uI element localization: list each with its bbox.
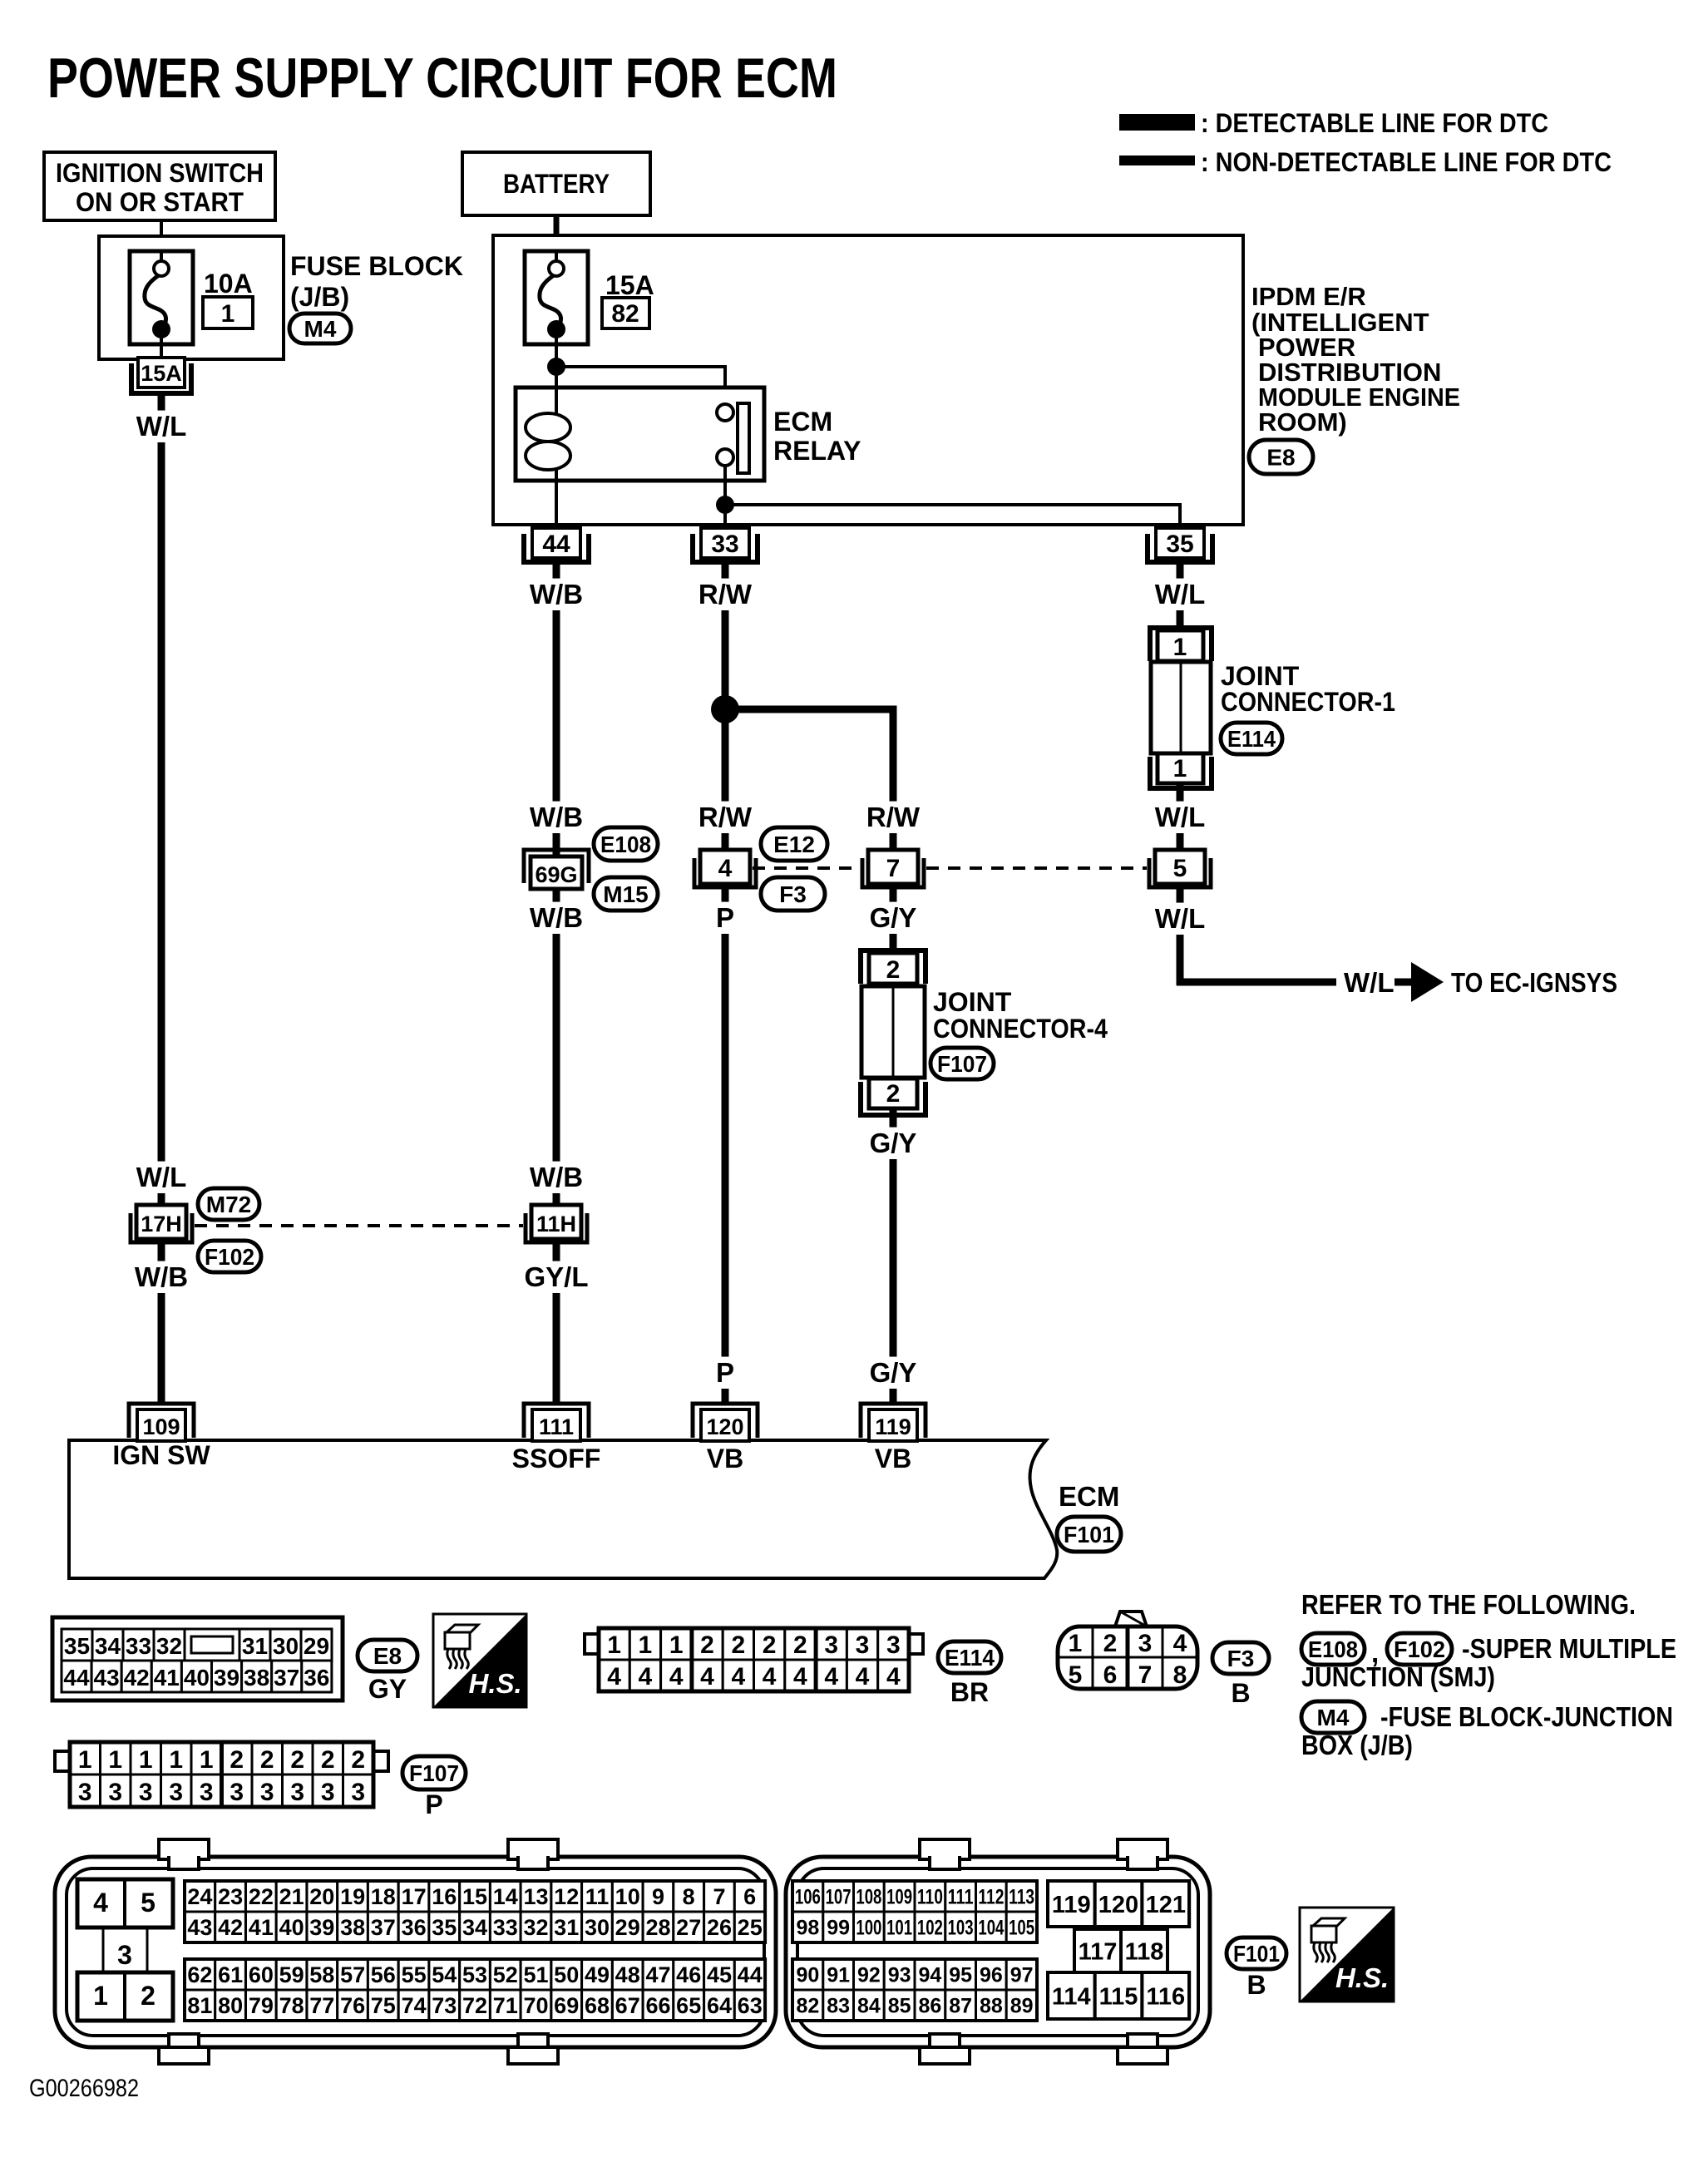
svg-text:2: 2 xyxy=(321,1746,335,1774)
svg-text:G/Y: G/Y xyxy=(870,1357,917,1388)
svg-text:13: 13 xyxy=(523,1884,548,1909)
svg-text:3: 3 xyxy=(200,1779,214,1806)
svg-text:81: 81 xyxy=(187,1993,212,2018)
svg-text:E108: E108 xyxy=(1308,1636,1358,1662)
connector oval F107 (view) xyxy=(402,1756,466,1789)
IPDM pin 33 xyxy=(693,534,758,562)
ECM relay box xyxy=(516,387,764,481)
label W/L above 17H xyxy=(131,1162,191,1193)
svg-text:-SUPER MULTIPLE: -SUPER MULTIPLE xyxy=(1462,1633,1676,1664)
svg-text:108: 108 xyxy=(856,1886,881,1909)
svg-text:9: 9 xyxy=(652,1884,664,1909)
svg-text:2: 2 xyxy=(700,1631,714,1659)
svg-text:POWER SUPPLY CIRCUIT FOR ECM: POWER SUPPLY CIRCUIT FOR ECM xyxy=(47,47,837,110)
svg-text:117: 117 xyxy=(1079,1938,1118,1965)
svg-text:ECM: ECM xyxy=(773,407,832,437)
svg-text:95: 95 xyxy=(949,1964,972,1987)
H.S. logo 2 xyxy=(1300,1908,1394,2002)
label G/Y xyxy=(862,902,923,934)
svg-text:F101: F101 xyxy=(1233,1941,1280,1967)
svg-text:E12: E12 xyxy=(773,832,815,857)
svg-text:30: 30 xyxy=(585,1915,610,1940)
ECM view cells 119-121 xyxy=(1048,1881,1095,1927)
svg-text:W/L: W/L xyxy=(1155,903,1205,934)
svg-text:8: 8 xyxy=(683,1884,695,1909)
svg-text:1: 1 xyxy=(139,1746,153,1774)
wire W/L to EC-IGNSYS xyxy=(1177,979,1336,986)
svg-text:71: 71 xyxy=(493,1993,518,2018)
svg-text:E8: E8 xyxy=(1266,445,1295,471)
svg-text:69G: 69G xyxy=(535,862,577,887)
svg-text:W/L: W/L xyxy=(136,1162,186,1192)
svg-text:96: 96 xyxy=(980,1964,1003,1987)
ECM view grid rows 24-6 / 43-25 xyxy=(185,1881,215,1912)
svg-text:6: 6 xyxy=(1103,1661,1118,1689)
connector oval E12 xyxy=(761,827,827,861)
svg-text:3: 3 xyxy=(117,1940,132,1970)
svg-text:52: 52 xyxy=(493,1962,518,1987)
arrow to EC-IGNSYS xyxy=(1395,979,1414,986)
svg-text:102: 102 xyxy=(917,1917,943,1940)
connector oval E8 (view) xyxy=(358,1640,417,1671)
svg-text:GY: GY xyxy=(368,1674,407,1704)
svg-text:ECM: ECM xyxy=(1059,1481,1119,1512)
svg-text:107: 107 xyxy=(826,1886,852,1909)
ECM box xyxy=(69,1440,1057,1578)
svg-text:IGN SW: IGN SW xyxy=(112,1440,210,1470)
svg-text:35: 35 xyxy=(432,1915,457,1940)
svg-text:1: 1 xyxy=(221,300,235,328)
wire relay contact to pin 33 and junction xyxy=(723,466,727,528)
connector oval E114 xyxy=(1221,723,1282,754)
svg-text:99: 99 xyxy=(827,1917,850,1940)
svg-text:3: 3 xyxy=(169,1779,183,1806)
connector oval E8 xyxy=(1249,440,1313,474)
ECM connector view right shell xyxy=(786,1857,1210,2047)
svg-text:85: 85 xyxy=(888,1995,911,2018)
svg-text:86: 86 xyxy=(918,1995,941,2018)
svg-text:92: 92 xyxy=(857,1964,881,1987)
svg-text:VB: VB xyxy=(875,1444,911,1473)
svg-text:49: 49 xyxy=(585,1962,610,1987)
connector view E8 (IPDM) xyxy=(52,1617,343,1700)
svg-text:JUNCTION (SMJ): JUNCTION (SMJ) xyxy=(1301,1661,1495,1692)
IPDM pin 35 xyxy=(1148,534,1212,562)
svg-text:76: 76 xyxy=(340,1993,365,2018)
svg-text:70: 70 xyxy=(523,1993,548,2018)
svg-text:5: 5 xyxy=(1069,1661,1083,1689)
svg-text:77: 77 xyxy=(309,1993,334,2018)
svg-text:27: 27 xyxy=(676,1915,701,1940)
svg-text:SSOFF: SSOFF xyxy=(512,1444,601,1473)
svg-text:68: 68 xyxy=(585,1993,610,2018)
svg-text:41: 41 xyxy=(249,1915,274,1940)
svg-text:10A: 10A xyxy=(204,269,253,299)
svg-text:M4: M4 xyxy=(1317,1705,1350,1730)
svg-text:3: 3 xyxy=(108,1779,122,1806)
svg-text:7: 7 xyxy=(886,855,901,882)
connector oval E114 (view) xyxy=(938,1641,1001,1673)
svg-text:1: 1 xyxy=(1173,755,1187,782)
svg-text:4: 4 xyxy=(763,1663,777,1691)
ECM view cells 117-118 xyxy=(1074,1929,1121,1972)
svg-text:1: 1 xyxy=(108,1746,122,1774)
SMJ oval F102 (note) xyxy=(1387,1633,1452,1665)
ECM view grid rows 90-97 / 82-89 xyxy=(792,1959,823,1990)
svg-text:118: 118 xyxy=(1125,1938,1164,1965)
svg-text:: DETECTABLE LINE FOR DTC: : DETECTABLE LINE FOR DTC xyxy=(1201,108,1548,138)
svg-text:65: 65 xyxy=(676,1993,701,2018)
svg-text:25: 25 xyxy=(738,1915,763,1940)
svg-text:29: 29 xyxy=(304,1633,329,1659)
svg-text:F3: F3 xyxy=(1227,1646,1255,1671)
svg-text:35: 35 xyxy=(64,1633,90,1659)
svg-text:E114: E114 xyxy=(1227,726,1276,752)
svg-text:JOINT: JOINT xyxy=(933,987,1012,1017)
svg-text:101: 101 xyxy=(886,1917,912,1940)
svg-text:3: 3 xyxy=(230,1779,244,1806)
ECM pin 119 xyxy=(861,1404,926,1438)
svg-text:120: 120 xyxy=(706,1414,743,1439)
svg-text:4: 4 xyxy=(793,1663,807,1691)
svg-text:30: 30 xyxy=(273,1633,299,1659)
dashed link 7 to 5 xyxy=(926,866,1147,870)
label W/B below 17H xyxy=(131,1261,191,1293)
svg-text:R/W: R/W xyxy=(699,802,753,832)
svg-text:55: 55 xyxy=(402,1962,427,1987)
wire fuse 82 to junction xyxy=(555,344,558,387)
svg-text:15A: 15A xyxy=(605,270,654,300)
svg-text:1: 1 xyxy=(1069,1630,1083,1657)
svg-text:2: 2 xyxy=(351,1746,365,1774)
svg-text:4: 4 xyxy=(607,1663,621,1691)
svg-text:80: 80 xyxy=(218,1993,243,2018)
svg-text:GY/L: GY/L xyxy=(524,1261,588,1292)
svg-text:G/Y: G/Y xyxy=(870,902,917,933)
svg-text:W/L: W/L xyxy=(1155,579,1205,610)
svg-text:26: 26 xyxy=(707,1915,732,1940)
joint connector-4 (F107) xyxy=(861,950,926,984)
battery box xyxy=(462,152,650,215)
fuse 10A #1 xyxy=(130,251,193,344)
svg-text:1: 1 xyxy=(200,1746,214,1774)
svg-text:73: 73 xyxy=(432,1993,457,2018)
connector oval M4 xyxy=(289,313,351,343)
SMJ oval F102 xyxy=(198,1241,261,1272)
label W/L xyxy=(1149,802,1210,833)
relay coil xyxy=(555,387,558,413)
svg-text:94: 94 xyxy=(918,1964,941,1987)
svg-text:39: 39 xyxy=(309,1915,334,1940)
connector 5 xyxy=(1149,858,1211,887)
svg-text:IPDM E/R: IPDM E/R xyxy=(1251,282,1366,311)
svg-text:B: B xyxy=(1246,1970,1266,2000)
connector view E114 xyxy=(585,1634,599,1654)
svg-text:83: 83 xyxy=(827,1995,850,2018)
svg-text:F102: F102 xyxy=(205,1244,254,1270)
junction node on R/W wire xyxy=(711,695,739,723)
svg-text:3: 3 xyxy=(139,1779,153,1806)
svg-text:113: 113 xyxy=(1009,1886,1034,1909)
svg-text:114: 114 xyxy=(1052,1983,1091,2010)
ECM pin 109 xyxy=(129,1404,194,1438)
svg-text:56: 56 xyxy=(371,1962,396,1987)
svg-text:37: 37 xyxy=(274,1665,299,1691)
svg-text:W/B: W/B xyxy=(530,902,583,933)
svg-text:79: 79 xyxy=(249,1993,274,2018)
svg-text:M15: M15 xyxy=(603,881,648,907)
label GY/L below 11H xyxy=(517,1261,595,1293)
svg-text:3: 3 xyxy=(78,1779,92,1806)
svg-text:H.S.: H.S. xyxy=(469,1668,522,1699)
connector 11H xyxy=(526,1213,587,1242)
svg-text:7: 7 xyxy=(1138,1661,1153,1689)
svg-text:51: 51 xyxy=(523,1962,548,1987)
svg-text:BATTERY: BATTERY xyxy=(503,169,610,199)
svg-text:91: 91 xyxy=(827,1964,850,1987)
svg-text:28: 28 xyxy=(645,1915,670,1940)
svg-text:P: P xyxy=(716,1357,734,1388)
svg-text:1: 1 xyxy=(169,1746,183,1774)
label P xyxy=(712,902,738,934)
svg-text:74: 74 xyxy=(402,1993,427,2018)
legend: detectable line sample xyxy=(1119,114,1195,131)
svg-text:W/B: W/B xyxy=(530,802,583,832)
label G/Y below JC4 xyxy=(862,1128,923,1159)
svg-text:3: 3 xyxy=(321,1779,335,1806)
svg-text:97: 97 xyxy=(1010,1964,1034,1987)
svg-text:31: 31 xyxy=(242,1633,268,1659)
svg-text:100: 100 xyxy=(856,1917,881,1940)
svg-text:1: 1 xyxy=(639,1631,653,1659)
svg-text:78: 78 xyxy=(279,1993,304,2018)
svg-text:3: 3 xyxy=(351,1779,365,1806)
connector oval F107 xyxy=(931,1048,994,1079)
IPDM pin 44 xyxy=(524,534,589,562)
svg-text:54: 54 xyxy=(432,1962,457,1987)
svg-text:46: 46 xyxy=(676,1962,701,1987)
svg-text:4: 4 xyxy=(639,1663,653,1691)
label R/W xyxy=(694,802,755,833)
svg-text:REFER TO THE FOLLOWING.: REFER TO THE FOLLOWING. xyxy=(1301,1589,1636,1620)
svg-text:98: 98 xyxy=(796,1917,819,1940)
connector 4 xyxy=(694,858,756,887)
svg-text:53: 53 xyxy=(462,1962,487,1987)
svg-text:F107: F107 xyxy=(409,1760,459,1786)
svg-text:32: 32 xyxy=(156,1633,182,1659)
svg-text:4: 4 xyxy=(824,1663,838,1691)
svg-text:2: 2 xyxy=(230,1746,244,1774)
label R/W xyxy=(694,579,755,610)
wire relay coil to pin 44 xyxy=(555,481,558,528)
svg-text:H.S.: H.S. xyxy=(1335,1962,1389,1993)
svg-text:BOX (J/B): BOX (J/B) xyxy=(1301,1730,1413,1760)
svg-text:2: 2 xyxy=(886,956,901,984)
svg-text:W/L: W/L xyxy=(1155,802,1205,832)
ECM view cells 4/5 xyxy=(77,1879,173,1927)
svg-text:119: 119 xyxy=(1052,1892,1091,1918)
IPDM E/R box xyxy=(493,235,1243,525)
ignition switch source box xyxy=(44,152,275,220)
svg-text:F107: F107 xyxy=(937,1051,987,1077)
svg-text:93: 93 xyxy=(888,1964,911,1987)
svg-text:84: 84 xyxy=(857,1995,881,2018)
ECM view grid rows 106-113 / 98-105 xyxy=(792,1881,823,1912)
svg-text:112: 112 xyxy=(978,1886,1004,1909)
svg-text:FUSE BLOCK: FUSE BLOCK xyxy=(290,251,463,281)
svg-text:P: P xyxy=(425,1789,442,1819)
svg-text:E8: E8 xyxy=(373,1643,402,1669)
junction node below fuse 82 xyxy=(547,358,565,376)
svg-text:116: 116 xyxy=(1146,1983,1185,2010)
svg-text:32: 32 xyxy=(523,1915,548,1940)
svg-text:17: 17 xyxy=(402,1884,427,1909)
svg-text:38: 38 xyxy=(340,1915,365,1940)
SMJ oval M15 xyxy=(594,877,658,911)
svg-text:103: 103 xyxy=(948,1917,974,1940)
svg-text:15A: 15A xyxy=(141,361,182,386)
svg-text:E114: E114 xyxy=(945,1645,995,1671)
svg-text:36: 36 xyxy=(304,1665,329,1691)
svg-text:BR: BR xyxy=(950,1677,989,1707)
svg-text:F3: F3 xyxy=(779,881,807,907)
svg-text:11H: 11H xyxy=(536,1212,576,1236)
svg-text:62: 62 xyxy=(187,1962,212,1987)
svg-text:3: 3 xyxy=(290,1779,304,1806)
fuse 15A #82 xyxy=(525,251,588,344)
svg-text:106: 106 xyxy=(795,1886,821,1909)
label W/L below fuse block xyxy=(131,411,191,442)
svg-text:69: 69 xyxy=(554,1993,579,2018)
label W/B xyxy=(526,579,586,610)
svg-text:42: 42 xyxy=(218,1915,243,1940)
svg-text:75: 75 xyxy=(371,1993,396,2018)
svg-text:40: 40 xyxy=(279,1915,304,1940)
svg-text:29: 29 xyxy=(615,1915,640,1940)
svg-text:4: 4 xyxy=(731,1663,745,1691)
svg-text:42: 42 xyxy=(124,1665,150,1691)
legend: non-detectable line sample xyxy=(1119,155,1195,165)
wire W/L ignition branch (left column) xyxy=(158,393,165,1405)
svg-text:1: 1 xyxy=(607,1631,621,1659)
svg-text:2: 2 xyxy=(763,1631,777,1659)
joint connector-1 (E114) xyxy=(1150,628,1212,661)
svg-text:2: 2 xyxy=(290,1746,304,1774)
svg-text:G/Y: G/Y xyxy=(870,1128,917,1158)
svg-text:W/L: W/L xyxy=(136,411,186,442)
svg-text:6: 6 xyxy=(743,1884,756,1909)
svg-text:W/L: W/L xyxy=(1344,967,1394,998)
svg-text:CONNECTOR-4: CONNECTOR-4 xyxy=(933,1014,1108,1044)
connector 7 xyxy=(862,858,924,887)
svg-text:4: 4 xyxy=(856,1663,870,1691)
svg-text:43: 43 xyxy=(187,1915,212,1940)
svg-text:33: 33 xyxy=(493,1915,518,1940)
svg-text:17H: 17H xyxy=(141,1212,182,1236)
ECM view cells 1/2 xyxy=(77,1972,173,2021)
svg-text:11: 11 xyxy=(585,1884,610,1909)
svg-text:43: 43 xyxy=(94,1665,120,1691)
svg-text:40: 40 xyxy=(184,1665,210,1691)
svg-text:3: 3 xyxy=(886,1631,901,1659)
svg-text:119: 119 xyxy=(875,1414,911,1439)
svg-text:ROOM): ROOM) xyxy=(1258,407,1347,437)
svg-text:4: 4 xyxy=(1173,1630,1187,1657)
svg-text:44: 44 xyxy=(738,1962,763,1987)
relay contact xyxy=(717,404,733,421)
svg-text:47: 47 xyxy=(645,1962,670,1987)
svg-text:14: 14 xyxy=(493,1884,518,1909)
svg-text:4: 4 xyxy=(700,1663,714,1691)
svg-text:W/B: W/B xyxy=(135,1261,188,1292)
svg-text:90: 90 xyxy=(796,1964,819,1987)
svg-text:1: 1 xyxy=(669,1631,684,1659)
svg-text:67: 67 xyxy=(615,1993,640,2018)
svg-text:44: 44 xyxy=(542,531,570,558)
svg-text:41: 41 xyxy=(154,1665,180,1691)
ECM pin 111 xyxy=(524,1404,589,1438)
svg-text:3: 3 xyxy=(260,1779,274,1806)
svg-text:3: 3 xyxy=(824,1631,838,1659)
svg-text:20: 20 xyxy=(309,1884,334,1909)
svg-text:5: 5 xyxy=(1173,855,1187,882)
svg-text:IGNITION SWITCH: IGNITION SWITCH xyxy=(56,158,264,188)
svg-text:-FUSE BLOCK-JUNCTION: -FUSE BLOCK-JUNCTION xyxy=(1380,1701,1673,1732)
svg-text:82: 82 xyxy=(796,1995,819,2018)
fuse number box 82 xyxy=(602,298,649,328)
svg-text:23: 23 xyxy=(218,1884,243,1909)
svg-text:1: 1 xyxy=(1173,634,1187,661)
svg-text:4: 4 xyxy=(718,855,733,882)
svg-text:4: 4 xyxy=(93,1888,108,1918)
ECM connector view left shell xyxy=(55,1857,776,2047)
svg-text:2: 2 xyxy=(1103,1630,1118,1657)
SMJ oval M72 xyxy=(198,1188,259,1220)
svg-text:R/W: R/W xyxy=(699,579,753,610)
svg-text:24: 24 xyxy=(187,1884,212,1909)
svg-text:2: 2 xyxy=(886,1080,901,1108)
svg-text:36: 36 xyxy=(402,1915,427,1940)
svg-text:31: 31 xyxy=(554,1915,579,1940)
svg-text:4: 4 xyxy=(669,1663,684,1691)
svg-text:7: 7 xyxy=(713,1884,725,1909)
svg-text:44: 44 xyxy=(63,1665,90,1691)
wire ignition switch to fuse block xyxy=(160,220,163,251)
connector 17H xyxy=(131,1213,192,1242)
svg-text:M72: M72 xyxy=(206,1192,251,1217)
svg-text:121: 121 xyxy=(1146,1892,1186,1918)
svg-text:TO EC-IGNSYS: TO EC-IGNSYS xyxy=(1451,967,1617,998)
svg-text:110: 110 xyxy=(917,1886,943,1909)
svg-text:P: P xyxy=(716,902,734,933)
wire R/W column (pin 33 to ECM pin 120) xyxy=(722,562,729,1405)
svg-text:72: 72 xyxy=(462,1993,487,2018)
svg-text:19: 19 xyxy=(340,1884,365,1909)
dashed link 17H to 11H xyxy=(195,1224,523,1227)
svg-text:104: 104 xyxy=(978,1917,1004,1940)
svg-text:2: 2 xyxy=(793,1631,807,1659)
label R/W branch xyxy=(862,802,923,833)
connector oval F101 xyxy=(1057,1517,1121,1552)
svg-text:2: 2 xyxy=(141,1981,155,2011)
svg-text:60: 60 xyxy=(249,1962,274,1987)
svg-text:VB: VB xyxy=(707,1444,743,1473)
svg-text:4: 4 xyxy=(886,1663,901,1691)
svg-text:34: 34 xyxy=(462,1915,487,1940)
svg-text:F102: F102 xyxy=(1394,1636,1445,1662)
svg-text:M4: M4 xyxy=(304,316,337,342)
svg-text:115: 115 xyxy=(1099,1983,1138,2010)
